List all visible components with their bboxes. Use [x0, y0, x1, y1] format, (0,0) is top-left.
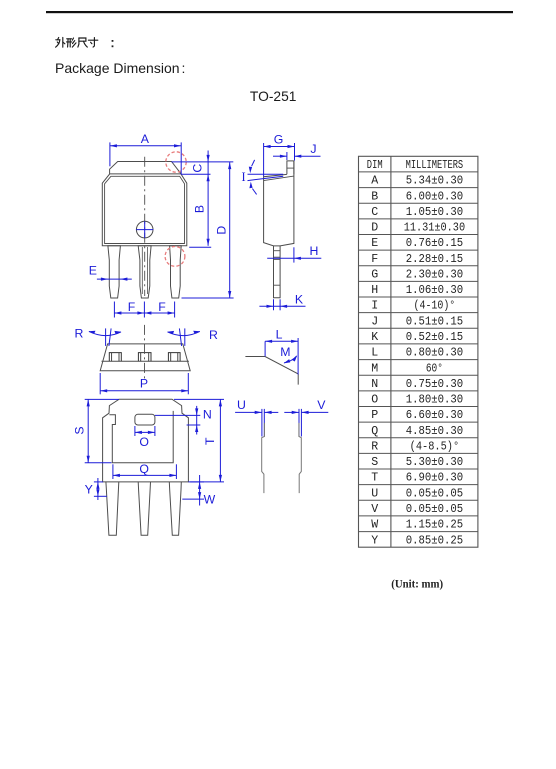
dimension E	[97, 278, 132, 280]
front view: body inner outline	[105, 176, 185, 243]
svg-text:G: G	[371, 269, 378, 282]
front view: center line	[144, 157, 146, 296]
svg-text:60°: 60°	[426, 362, 443, 375]
dimension C/B shared line	[207, 151, 209, 246]
svg-text:B: B	[371, 190, 378, 203]
svg-text:L: L	[371, 347, 378, 360]
dimension V	[284, 411, 298, 413]
dimension G	[264, 146, 295, 148]
dimension H	[293, 247, 295, 262]
dimension B	[189, 246, 211, 248]
svg-text:6.90±0.30: 6.90±0.30	[406, 472, 463, 485]
svg-text:O: O	[371, 394, 378, 407]
svg-text:U: U	[371, 487, 378, 500]
side view: leg	[274, 246, 281, 298]
svg-text:H: H	[371, 284, 378, 297]
hole crosshair	[136, 229, 153, 231]
svg-text:O: O	[139, 435, 149, 449]
svg-text:0.05±0.05: 0.05±0.05	[406, 487, 463, 500]
detail L/M outline	[245, 357, 298, 385]
detail U lead	[261, 409, 263, 437]
svg-text:M: M	[280, 345, 290, 359]
svg-text:S: S	[371, 456, 378, 469]
svg-text:F: F	[371, 253, 378, 266]
svg-text:0.85±0.25: 0.85±0.25	[406, 534, 463, 547]
dimension T	[174, 398, 224, 400]
svg-text:D: D	[214, 226, 228, 235]
svg-text:1.05±0.30: 1.05±0.30	[406, 206, 463, 219]
svg-text:6.60±0.30: 6.60±0.30	[406, 409, 463, 422]
dimensions table	[359, 156, 478, 547]
svg-text:W: W	[204, 492, 216, 506]
dimension O	[134, 426, 136, 436]
svg-text:2.28±0.15: 2.28±0.15	[406, 253, 463, 266]
back view pad outline	[109, 411, 173, 463]
svg-text:V: V	[371, 503, 378, 516]
dimension S	[85, 398, 119, 400]
svg-text:U: U	[237, 398, 246, 412]
dimension J	[286, 152, 288, 160]
dimension D	[229, 162, 231, 298]
svg-text:C: C	[190, 164, 204, 173]
dimension C extension lines	[172, 161, 234, 163]
svg-text:R: R	[75, 326, 84, 340]
dimension Q	[112, 464, 114, 479]
front view: right leg	[170, 246, 182, 298]
svg-text:(4-10)°: (4-10)°	[414, 300, 456, 313]
top rule	[46, 11, 513, 13]
back view legs	[106, 482, 119, 535]
svg-text:D: D	[371, 222, 378, 235]
front view: left leg	[108, 246, 121, 298]
svg-text:1.15±0.25: 1.15±0.25	[406, 519, 463, 532]
front view: cap outline	[110, 162, 181, 174]
svg-text:1.06±0.30: 1.06±0.30	[406, 284, 463, 297]
svg-text:TO-251: TO-251	[250, 89, 297, 104]
side view: body	[264, 161, 294, 246]
svg-text:M: M	[371, 362, 378, 375]
svg-text:Q: Q	[371, 425, 378, 438]
svg-text:4.85±0.30: 4.85±0.30	[406, 425, 463, 438]
dimension L	[265, 340, 298, 342]
svg-text:J: J	[310, 142, 316, 156]
svg-text:F: F	[158, 300, 166, 314]
dimension N	[155, 414, 200, 416]
svg-text:K: K	[371, 331, 378, 344]
svg-text:P: P	[371, 409, 378, 422]
svg-text:J: J	[371, 315, 378, 328]
dimension U	[235, 411, 262, 413]
svg-text:6.00±0.30: 6.00±0.30	[406, 190, 463, 203]
svg-text:W: W	[371, 519, 378, 532]
svg-text:1.80±0.30: 1.80±0.30	[406, 394, 463, 407]
red highlight circle top corner	[166, 152, 186, 172]
svg-text:P: P	[140, 377, 148, 391]
svg-text:(Unit: mm): (Unit: mm)	[391, 577, 443, 590]
colon	[112, 40, 114, 42]
svg-text:L: L	[276, 328, 283, 342]
svg-text:Y: Y	[371, 534, 378, 547]
svg-text:E: E	[371, 237, 378, 250]
svg-text:11.31±0.30: 11.31±0.30	[404, 222, 465, 235]
svg-text:R: R	[371, 440, 378, 453]
dimension Y	[94, 481, 103, 483]
svg-text:5.30±0.30: 5.30±0.30	[406, 456, 463, 469]
svg-text:K: K	[295, 293, 304, 307]
svg-text:N: N	[203, 408, 212, 422]
svg-text:H: H	[309, 244, 318, 258]
dimension F F	[114, 312, 174, 314]
dimension K	[273, 299, 275, 310]
svg-text:A: A	[371, 175, 378, 188]
chinese title 外形尺寸： (drawn strokes)	[56, 38, 65, 48]
svg-text:T: T	[371, 472, 378, 485]
svg-text:0.51±0.15: 0.51±0.15	[406, 315, 463, 328]
dimension A	[110, 145, 181, 147]
detail V lead	[298, 409, 300, 437]
svg-text:V: V	[317, 398, 326, 412]
svg-text:0.05±0.05: 0.05±0.05	[406, 503, 463, 516]
red highlight circle right leg	[165, 247, 185, 267]
svg-text:G: G	[274, 132, 284, 146]
back view tab (rounded)	[135, 414, 155, 425]
top view outline	[100, 344, 190, 371]
front view: mounting hole	[136, 221, 153, 238]
front view: middle leg	[138, 246, 151, 298]
front view: body outer outline	[102, 174, 187, 246]
dimension W	[188, 481, 204, 483]
svg-text:(4-8.5)°: (4-8.5)°	[410, 440, 460, 453]
top view lead tabs	[109, 353, 121, 362]
svg-text:T: T	[203, 437, 217, 445]
svg-text::: :	[182, 60, 186, 76]
side view: tab	[287, 161, 294, 174]
svg-text:Q: Q	[139, 462, 149, 476]
svg-text:MILLIMETERS: MILLIMETERS	[406, 159, 464, 172]
svg-text:Package Dimension: Package Dimension	[55, 60, 180, 76]
svg-text:DIM: DIM	[367, 159, 383, 172]
svg-text:5.34±0.30: 5.34±0.30	[406, 175, 463, 188]
svg-text:2.30±0.30: 2.30±0.30	[406, 269, 463, 282]
svg-text:Y: Y	[85, 483, 93, 497]
svg-text:C: C	[371, 206, 378, 219]
svg-text:B: B	[192, 205, 206, 213]
svg-text:A: A	[141, 132, 150, 146]
svg-text:0.76±0.15: 0.76±0.15	[406, 237, 463, 250]
top view center line	[144, 325, 146, 379]
svg-text:R: R	[209, 328, 218, 342]
svg-text:I: I	[242, 170, 246, 184]
svg-text:E: E	[89, 263, 97, 277]
svg-text:F: F	[128, 300, 136, 314]
svg-text:S: S	[73, 426, 87, 434]
dimension P	[99, 373, 101, 394]
svg-text:0.80±0.30: 0.80±0.30	[406, 347, 463, 360]
svg-text:I: I	[371, 300, 378, 313]
svg-text:N: N	[371, 378, 378, 391]
svg-text:0.52±0.15: 0.52±0.15	[406, 331, 463, 344]
back view body outline	[103, 399, 189, 482]
svg-text:0.75±0.30: 0.75±0.30	[406, 378, 463, 391]
